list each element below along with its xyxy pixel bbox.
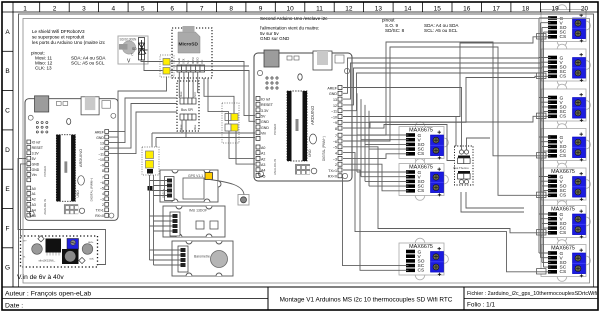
wire pad SCL branch [171, 65, 250, 67]
svg-text:Date :: Date : [5, 303, 23, 310]
svg-text:A: A [5, 29, 10, 36]
svg-text:16: 16 [463, 5, 471, 12]
bus stubs module M6 [539, 98, 551, 112]
MicroSD module U4 [172, 26, 212, 78]
svg-text:IMU 13DOF: IMU 13DOF [189, 209, 207, 213]
bus G vertical (right col) [538, 18, 540, 253]
svg-text:6: 6 [170, 5, 174, 12]
thermocouple amp MAX6675 M3 (mid column) [399, 238, 448, 280]
svg-text:B: B [5, 68, 9, 75]
wire A1 pin10 to i2c pad [109, 112, 177, 154]
svg-text:in+: in+ [23, 239, 27, 243]
left letter band line [12, 2, 14, 287]
svg-text:les ports du Arduino Uno (mait: les ports du Arduino Uno (maitre i2c [32, 40, 106, 45]
wire trunk to GPS header [150, 181, 168, 196]
wire i2c pads to A2 A5 [236, 131, 255, 164]
svg-text:5: 5 [141, 5, 145, 12]
svg-text:Second Arduino Uno /esclave i2: Second Arduino Uno /esclave i2c [260, 16, 328, 21]
svg-text:MISO: MISO [195, 57, 199, 64]
svg-text:10: 10 [286, 5, 294, 12]
note: shield wifi text [31, 29, 106, 71]
bus SO vertical (mid col) [365, 105, 409, 181]
bus SC vertical (right col) [543, 32, 545, 267]
svg-text:F: F [6, 225, 10, 232]
wire pad 5V to A2 5V [171, 62, 256, 116]
bus V vertical (mid col) [361, 99, 409, 177]
svg-text:Mosi: Mosi [180, 124, 183, 130]
svg-text:pinout: pinout [382, 18, 395, 23]
svg-text:14: 14 [404, 5, 412, 12]
svg-text:17: 17 [493, 5, 501, 12]
svg-text:G: G [5, 265, 10, 272]
wire CS M9 [343, 147, 551, 233]
wire microSD pins to Bus SPI [179, 72, 197, 98]
bus G feed (A2 GND) [343, 58, 539, 93]
svg-text:GPS V1.1: GPS V1.1 [188, 174, 203, 178]
bus V vertical (right col) [540, 23, 542, 258]
svg-text:1: 1 [23, 5, 27, 12]
svg-text:4: 4 [111, 5, 115, 12]
GPS antenna ANT1 [238, 195, 249, 206]
svg-text:GND 5v: GND 5v [162, 188, 166, 198]
svg-text:C: C [5, 108, 10, 115]
svg-text:V.in de 6v à 40v: V.in de 6v à 40v [17, 274, 64, 281]
svg-text:Mosi: Mosi [180, 91, 183, 97]
bus stubs module M8 [539, 177, 551, 191]
bus G vertical (mid col) [357, 93, 409, 172]
wire CS M2 [343, 164, 409, 191]
svg-text:SS: SS [186, 60, 190, 64]
wire A1 GND to power module [21, 164, 27, 236]
svg-text:Montage V1 Arduinos MS i2c 10: Montage V1 Arduinos MS i2c 10 thermocoup… [280, 297, 453, 304]
wire A1 5V to power module [18, 159, 106, 265]
svg-text:18: 18 [522, 5, 530, 12]
CS pin connector glyphs (right column) [537, 34, 547, 274]
note: second arduino text [260, 16, 459, 41]
thermocouple amp MAX6675 M7 (right col 4) [541, 124, 590, 166]
thermocouple amp MAX6675 M4 (right col 1) [541, 5, 590, 47]
thermocouple amp MAX6675 M5 (right col 2) [541, 44, 590, 86]
top band column dividers [40, 2, 570, 12]
svg-text:Auteur : François open-eLab: Auteur : François open-eLab [5, 291, 91, 298]
svg-text:se superpose et reproduit: se superpose et reproduit [32, 35, 85, 40]
svg-text:MicroSD: MicroSD [179, 42, 199, 48]
net pad cluster (yellow) i2c near A2 [222, 103, 239, 143]
wire Bus SPI to left trunk and A2 Vin [152, 120, 255, 147]
wire CS M5 [343, 76, 551, 122]
net pad 5V (yellow) near OLED [160, 55, 174, 77]
wire A2 RX to M3 SC [343, 176, 409, 266]
wire OLED SDA to pad [141, 60, 163, 62]
wire Bus Thermo top link 2 [467, 138, 491, 150]
top band numbers 1-20 [23, 5, 588, 12]
svg-text:Fichier : 2arduino_i2c_gps_10t: Fichier : 2arduino_i2c_gps_10thermocoupl… [467, 291, 597, 297]
svg-text:out.: out. [90, 257, 95, 261]
wire A2 AREF to Bus Thermo [343, 88, 462, 151]
bus SC vertical (mid col) [369, 111, 409, 186]
thermocouple amp MAX6675 M9 (right col 6) [541, 201, 590, 243]
bus V feed (A2 pin13) [343, 63, 541, 99]
wire A1 pin12 to Bus SPI [109, 98, 177, 143]
svg-text:20: 20 [581, 5, 589, 12]
svg-text:CLK: 13: CLK: 13 [35, 66, 52, 71]
Barometer module U7 [172, 241, 233, 276]
wire microSD to i2c pad 1 [204, 78, 234, 114]
svg-text:8: 8 [229, 5, 233, 12]
wire left trunk vertical 2 [153, 175, 155, 265]
svg-text:7: 7 [200, 5, 204, 12]
wire microSD to i2c pad 2 [208, 78, 229, 124]
svg-text:12: 12 [345, 5, 353, 12]
wire Bus Thermo bottom links [461, 192, 524, 212]
Arduino Uno master A1 [25, 96, 118, 220]
wire CS M8 [343, 47, 551, 195]
svg-text:MAX6675: MAX6675 [409, 127, 433, 133]
wire Bus SPI to A2 [156, 120, 255, 147]
top number band line [2, 11, 598, 13]
bus stubs module M5 [539, 58, 551, 72]
left band row dividers [2, 51, 13, 248]
wire CS M3 [343, 170, 409, 270]
wire CS M1 [343, 154, 409, 159]
wire A1 pin11 to i2c pad [109, 104, 177, 149]
wire CS M10 [343, 153, 551, 272]
svg-text:MAX6675: MAX6675 [409, 244, 433, 250]
svg-text:Bus Thermo: Bus Thermo [454, 166, 470, 170]
bus SO feed (A2 pin12) [343, 68, 542, 105]
svg-text:Barometre: Barometre [194, 255, 210, 259]
svg-text:MAX6675: MAX6675 [551, 169, 575, 175]
svg-text:SCL: A5 ou SCL: SCL: A5 ou SCL [424, 28, 458, 33]
wire CS M7 [343, 42, 551, 156]
thermocouple amp MAX6675 M8 (right col 5) [541, 163, 590, 205]
left band letters A-G [5, 29, 10, 272]
thermocouple amp MAX6675 M6 (right col 3) [541, 84, 590, 126]
svg-text:l'alimentation vient du maitre: l'alimentation vient du maitre: [260, 26, 319, 31]
svg-text:15: 15 [434, 5, 442, 12]
wire trunk to barometer header [150, 250, 181, 265]
svg-text:MAX6675: MAX6675 [409, 164, 433, 170]
Bus SPI connector J1 [177, 81, 199, 131]
wire left trunk vertical 1 [149, 175, 151, 260]
svg-text:GND sur GND: GND sur GND [260, 36, 290, 41]
net pad cluster (yellow) left trunk [142, 147, 159, 191]
svg-text:Bus SPI: Bus SPI [181, 108, 193, 112]
svg-text:MAX6675: MAX6675 [551, 206, 575, 212]
svg-text:Miso: Miso [194, 124, 197, 130]
svg-text:out+: out+ [88, 240, 94, 244]
wire CS M6 [343, 116, 551, 128]
wire pad GND to A2 GND [171, 71, 256, 122]
svg-text:D: D [5, 147, 10, 154]
wire A1 pin13 to OLED pad [109, 77, 167, 138]
bus stubs module M10 [539, 253, 551, 267]
wire i2c pads to A2 A4 [229, 131, 255, 158]
IMU 13DOF module U6 [163, 206, 225, 237]
svg-text:SD: SD [132, 47, 137, 51]
svg-text:11: 11 [316, 5, 323, 12]
wire CS M4 [343, 37, 551, 117]
thermocouple amp MAX6675 M2 (mid column) [399, 159, 448, 201]
svg-text:in.: in. [23, 255, 26, 259]
wire A1 AREF stub [109, 131, 125, 133]
bus stubs module M7 [539, 137, 551, 151]
title block [2, 286, 598, 288]
svg-text:slim2K15N6_: slim2K15N6_ [39, 259, 56, 263]
svg-text:SCL: A5 ou SCL: SCL: A5 ou SCL [71, 61, 105, 66]
thermocouple amp MAX6675 M1 (mid column) [399, 122, 448, 164]
svg-text:19: 19 [551, 5, 559, 12]
wire branch corner to bus thermo area [455, 117, 457, 147]
svg-text:E: E [5, 186, 10, 193]
svg-text:9: 9 [259, 5, 263, 12]
svg-text:MAX6675: MAX6675 [551, 245, 575, 251]
svg-text:MOSI: MOSI [191, 57, 195, 64]
svg-text:3: 3 [82, 5, 86, 12]
bus SC feed (A2 pin11) [343, 73, 544, 111]
bus SO vertical (right col) [541, 27, 543, 262]
wire A2 pin8 to Bus Thermo [343, 125, 455, 161]
svg-text:SCK: SCK [194, 92, 197, 97]
svg-text:2: 2 [53, 5, 57, 12]
DC-DC power module PS1 [21, 236, 98, 267]
bus stubs module M4 [539, 18, 551, 32]
GPS module U5 [160, 170, 221, 202]
thermocouple amp MAX6675 M10 (right col 7) [541, 240, 590, 282]
svg-text:Folio : 1/1: Folio : 1/1 [467, 302, 496, 309]
OLED/RTC module U3 (SSD1306) [118, 36, 148, 65]
wire OLED SCL to pad [144, 60, 163, 71]
Bus Thermo connector J2 [454, 146, 474, 185]
bus stubs module M9 [539, 214, 551, 228]
Arduino Uno slave A2 [254, 50, 352, 181]
svg-text:13: 13 [375, 5, 383, 12]
wire trunk to IMU header [150, 216, 173, 231]
wire GPS antenna feed [210, 180, 244, 195]
svg-text:SD/SC: 8: SD/SC: 8 [385, 28, 405, 33]
svg-text:Le shield Wifi DFRobotV3: Le shield Wifi DFRobotV3 [32, 29, 85, 34]
